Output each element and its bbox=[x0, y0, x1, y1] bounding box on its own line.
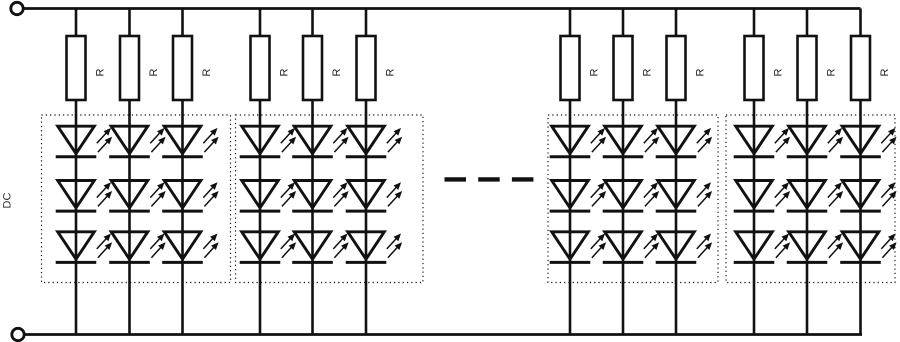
wire column 6 (bus to bus) bbox=[365, 9, 368, 335]
continuation dashes (repeated circuit) bbox=[445, 177, 535, 181]
LED D10 (column 4, row 1) bbox=[240, 126, 296, 157]
svg-text:DC: DC bbox=[2, 193, 14, 209]
wire column 12 (bus to bus) bbox=[859, 9, 862, 335]
LED D28 (column 10, row 1) bbox=[734, 126, 790, 157]
LED module box 2 (dotted outline) bbox=[236, 115, 424, 283]
LED D33 (column 11, row 3) bbox=[787, 232, 843, 263]
resistor R11 bbox=[798, 36, 817, 100]
wire column 8 (bus to bus) bbox=[622, 9, 625, 335]
svg-text:R: R bbox=[201, 68, 213, 76]
LED D24 (column 8, row 3) bbox=[603, 232, 659, 263]
LED D5 (column 2, row 2) bbox=[109, 181, 165, 212]
LED D4 (column 2, row 1) bbox=[109, 126, 165, 157]
LED D30 (column 10, row 3) bbox=[734, 232, 790, 263]
LED module box 4 (dotted outline) bbox=[726, 115, 895, 283]
resistor R10 bbox=[745, 36, 764, 100]
LED D9 (column 3, row 3) bbox=[162, 232, 218, 263]
LED D25 (column 9, row 1) bbox=[656, 126, 712, 157]
wire column 1 (bus to bus) bbox=[75, 9, 78, 335]
resistor R5 bbox=[303, 36, 322, 100]
svg-text:R: R bbox=[695, 68, 707, 76]
terminal T2 (DC -) bbox=[12, 328, 24, 340]
LED D16 (column 6, row 1) bbox=[346, 126, 402, 157]
LED module box 3 (dotted outline) bbox=[548, 115, 718, 283]
svg-text:R: R bbox=[589, 68, 601, 76]
LED D36 (column 12, row 3) bbox=[840, 232, 896, 263]
LED D29 (column 10, row 2) bbox=[734, 181, 790, 212]
resistor R4 bbox=[251, 36, 270, 100]
resistor R12 bbox=[851, 36, 870, 100]
LED D18 (column 6, row 3) bbox=[346, 232, 402, 263]
LED D34 (column 12, row 1) bbox=[840, 126, 896, 157]
LED D21 (column 7, row 3) bbox=[550, 232, 606, 263]
LED D14 (column 5, row 2) bbox=[292, 181, 348, 212]
LED D32 (column 11, row 2) bbox=[787, 181, 843, 212]
LED module box 1 (dotted outline) bbox=[42, 115, 231, 283]
LED D15 (column 5, row 3) bbox=[292, 232, 348, 263]
LED D17 (column 6, row 2) bbox=[346, 181, 402, 212]
svg-text:R: R bbox=[773, 68, 785, 76]
bottom bus wire (DC-) bbox=[18, 333, 862, 336]
LED D1 (column 1, row 1) bbox=[56, 126, 112, 157]
LED D26 (column 9, row 2) bbox=[656, 181, 712, 212]
LED D23 (column 8, row 2) bbox=[603, 181, 659, 212]
terminal T1 (DC +) bbox=[11, 2, 23, 14]
wire column 2 (bus to bus) bbox=[128, 9, 131, 335]
resistor R7 bbox=[561, 36, 580, 100]
wire column 4 (bus to bus) bbox=[259, 9, 262, 335]
wire column 3 (bus to bus) bbox=[181, 9, 184, 335]
LED D35 (column 12, row 2) bbox=[840, 181, 896, 212]
resistor R9 bbox=[667, 36, 686, 100]
svg-text:R: R bbox=[331, 68, 343, 76]
LED D19 (column 7, row 1) bbox=[550, 126, 606, 157]
LED D12 (column 4, row 3) bbox=[240, 232, 296, 263]
LED D31 (column 11, row 1) bbox=[787, 126, 843, 157]
LED D11 (column 4, row 2) bbox=[240, 181, 296, 212]
LED D2 (column 1, row 2) bbox=[56, 181, 112, 212]
resistor R1 bbox=[67, 36, 86, 100]
svg-text:R: R bbox=[279, 68, 291, 76]
LED D6 (column 2, row 3) bbox=[109, 232, 165, 263]
wire column 7 (bus to bus) bbox=[569, 9, 572, 335]
LED D20 (column 7, row 2) bbox=[550, 181, 606, 212]
wire column 9 (bus to bus) bbox=[675, 9, 678, 335]
resistor R6 bbox=[357, 36, 376, 100]
wire column 10 (bus to bus) bbox=[753, 9, 756, 335]
LED D27 (column 9, row 3) bbox=[656, 232, 712, 263]
wire column 5 (bus to bus) bbox=[311, 9, 314, 335]
svg-text:R: R bbox=[826, 68, 838, 76]
svg-text:R: R bbox=[642, 68, 654, 76]
LED D13 (column 5, row 1) bbox=[292, 126, 348, 157]
svg-text:R: R bbox=[879, 68, 891, 76]
svg-text:R: R bbox=[385, 68, 397, 76]
LED D7 (column 3, row 1) bbox=[162, 126, 218, 157]
top bus wire (DC+) bbox=[17, 7, 861, 10]
resistor R2 bbox=[120, 36, 139, 100]
wire column 11 (bus to bus) bbox=[806, 9, 809, 335]
svg-text:R: R bbox=[95, 68, 107, 76]
LED D22 (column 8, row 1) bbox=[603, 126, 659, 157]
LED D8 (column 3, row 2) bbox=[162, 181, 218, 212]
resistor R8 bbox=[614, 36, 633, 100]
LED D3 (column 1, row 3) bbox=[56, 232, 112, 263]
svg-text:R: R bbox=[148, 68, 160, 76]
resistor R3 bbox=[173, 36, 192, 100]
